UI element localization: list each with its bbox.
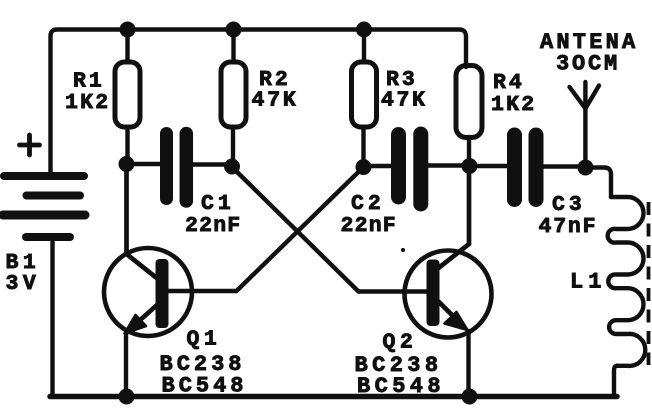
transistor Q2 base bar <box>427 260 440 327</box>
wire antenna node to L1 top <box>586 168 611 198</box>
antenna left arm <box>570 87 586 109</box>
wire Q1 collector from node R1 <box>127 164 157 278</box>
svg-text:R4: R4 <box>493 71 525 95</box>
capacitor C3 right plate <box>529 135 544 200</box>
junction node top rail at R1 <box>120 22 136 38</box>
svg-text:C2: C2 <box>351 192 385 216</box>
svg-text:R1: R1 <box>73 70 105 94</box>
wire R3 bottom stub <box>361 127 365 166</box>
svg-text:22nF: 22nF <box>341 214 397 238</box>
battery plus sign <box>20 135 40 155</box>
junction node R1 bottom <box>119 156 135 172</box>
svg-text:47nF: 47nF <box>539 215 598 239</box>
capacitor C2 left plate <box>391 135 406 198</box>
wire C2 right plate to node R4 <box>421 163 468 167</box>
svg-text:3OCM: 3OCM <box>556 52 620 77</box>
svg-text:C3: C3 <box>552 193 586 217</box>
wire top supply rail <box>51 30 467 173</box>
junction node R3 bottom <box>356 159 372 175</box>
wire Q2 emitter to ground rail <box>466 331 470 394</box>
wire Q2 base horizontal <box>359 289 427 293</box>
wire R1 top stub <box>125 30 129 63</box>
transistor Q2 emitter arrowhead <box>445 312 468 330</box>
wire L1 bottom to ground rail <box>614 366 617 394</box>
svg-text:Q2: Q2 <box>383 331 418 355</box>
inductor L1 coil <box>608 197 646 366</box>
transistor Q1 base bar <box>156 259 169 328</box>
wire C1 right plate to node R2 <box>185 162 232 166</box>
wire node R3 to C2 left plate <box>364 164 399 168</box>
wire node R4 to C3 left plate <box>469 164 514 168</box>
wire C3 right plate to antenna node <box>537 164 586 168</box>
svg-text:BC548: BC548 <box>162 374 248 399</box>
antenna right arm <box>585 86 599 109</box>
battery B1 long plate 3 <box>3 211 85 220</box>
svg-text:1K2: 1K2 <box>491 93 536 117</box>
wire node R1 to C1 left plate <box>127 162 166 166</box>
svg-text:22nF: 22nF <box>185 214 241 238</box>
battery B1 positive plate <box>4 172 84 180</box>
wire bottom ground rail <box>50 394 617 400</box>
wire R1 bottom stub <box>125 127 129 164</box>
wire Q1 emitter to ground rail <box>124 331 128 394</box>
transistor Q1 emitter arrowhead <box>125 315 147 334</box>
battery B1 short plate 2 <box>27 192 81 200</box>
wire R3 top stub <box>362 30 366 63</box>
wire R2 bottom stub <box>231 127 235 166</box>
capacitor C2 right plate <box>413 134 428 204</box>
wire node R2 diagonal to Q2 base <box>232 167 359 292</box>
transistor Q1 emitter line <box>134 305 157 326</box>
junction node R2 bottom <box>224 159 240 175</box>
inductor L1 core dashed line <box>647 202 651 365</box>
junction node ground at Q2 emitter <box>462 389 478 405</box>
svg-text:L1: L1 <box>570 270 606 295</box>
wire Q1 base horizontal <box>168 289 237 293</box>
svg-text:C1: C1 <box>201 192 235 216</box>
resistor R2 body <box>221 62 246 127</box>
battery B1 short plate 4 <box>26 233 70 241</box>
wire Q1 base diagonal to node R3 <box>237 168 364 292</box>
wire battery minus to ground rail <box>50 242 54 394</box>
junction node top rail at R2 <box>226 22 242 38</box>
wire Q2 collector from node R4 <box>439 166 470 268</box>
resistor R4 body <box>456 66 482 138</box>
wire R4 bottom stub <box>467 137 471 166</box>
resistor R3 body <box>352 62 377 127</box>
svg-text:BC548: BC548 <box>357 374 445 399</box>
capacitor C1 left plate <box>160 134 173 199</box>
svg-text:47K: 47K <box>252 89 299 113</box>
svg-text:3V: 3V <box>6 272 41 296</box>
junction node top rail at R3 <box>356 22 372 38</box>
antenna mast <box>583 82 587 167</box>
svg-text:1K2: 1K2 <box>65 91 110 115</box>
svg-text:Q1: Q1 <box>187 328 222 352</box>
junction node ground at Q1 emitter <box>119 389 135 405</box>
capacitor C1 right plate <box>180 134 194 202</box>
svg-text:47K: 47K <box>381 89 428 113</box>
junction node R4 bottom <box>462 158 478 174</box>
transistor Q2 emitter line <box>439 302 459 322</box>
resistor R1 body <box>115 62 140 127</box>
junction node antenna <box>578 160 594 176</box>
transistor Q2 circle <box>405 251 492 338</box>
capacitor C3 left plate <box>507 135 522 200</box>
transistor Q1 circle <box>104 248 192 336</box>
wire R2 top stub <box>231 30 235 63</box>
ink speck <box>401 248 405 252</box>
